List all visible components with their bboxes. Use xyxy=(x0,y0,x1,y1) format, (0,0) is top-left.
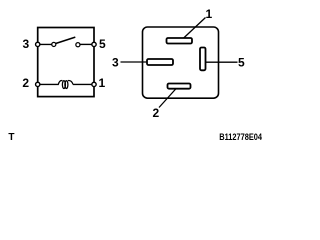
svg-text:3: 3 xyxy=(112,56,119,70)
switch contact (pivot, pin 3 side) xyxy=(52,42,56,46)
blade terminal 2 (bottom, horizontal) xyxy=(168,84,191,89)
svg-text:1: 1 xyxy=(206,7,213,21)
coil L1 xyxy=(58,80,73,88)
wire: coil to pin 1 xyxy=(73,83,94,85)
switch SW1 movable arm (open) xyxy=(55,37,75,44)
wire: switch contact to pin 5 xyxy=(80,43,94,45)
blade terminal 3 (left, horizontal) xyxy=(147,59,173,65)
leader line to pin 2 xyxy=(159,87,178,108)
relay K1 internal circuit: case outline xyxy=(38,28,94,97)
leader line to pin 1 xyxy=(181,18,206,41)
leader line to pin 5 xyxy=(205,61,238,63)
svg-text:2: 2 xyxy=(22,76,29,90)
terminal pin 5 xyxy=(92,42,96,46)
svg-text:1: 1 xyxy=(98,76,105,90)
wire: pin 3 to switch contact xyxy=(38,43,54,45)
wire: pin 2 to coil xyxy=(38,83,59,85)
svg-text:T: T xyxy=(8,132,14,143)
terminal pin 1 xyxy=(92,82,96,86)
svg-text:B112778E04: B112778E04 xyxy=(219,131,262,142)
blade terminal 1 (top, horizontal) xyxy=(167,38,193,44)
svg-text:5: 5 xyxy=(99,37,106,51)
switch contact (fixed, pin 5 side) xyxy=(76,43,80,47)
terminal pin 2 xyxy=(36,82,40,86)
relay connector face outline xyxy=(143,27,219,98)
leader line to pin 3 xyxy=(121,61,149,63)
blade terminal 5 (right, vertical) xyxy=(200,48,206,71)
svg-text:3: 3 xyxy=(22,37,29,51)
svg-text:2: 2 xyxy=(152,106,159,120)
terminal pin 3 xyxy=(36,42,40,46)
svg-text:5: 5 xyxy=(238,56,245,70)
